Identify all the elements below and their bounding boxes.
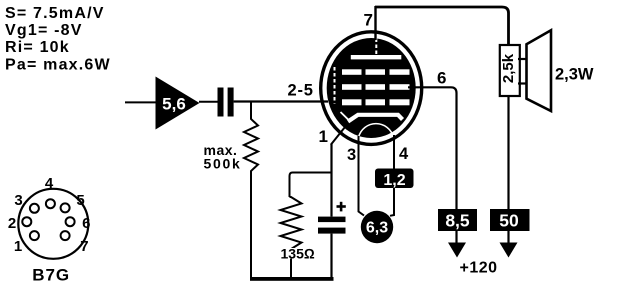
svg-text:2,3W: 2,3W xyxy=(555,66,594,84)
wire pin1 lead (cathode) xyxy=(331,127,345,145)
grid row 3 xyxy=(342,99,410,105)
grid rod internal dashed xyxy=(334,67,336,104)
svg-text:S= 7.5mA/V: S= 7.5mA/V xyxy=(5,5,105,22)
svg-text:6: 6 xyxy=(437,69,446,88)
tube V1 envelope xyxy=(321,32,422,145)
svg-text:4: 4 xyxy=(45,175,54,192)
svg-text:+120: +120 xyxy=(460,260,498,277)
speaker LS1 xyxy=(518,30,551,111)
screen voltage box 8,5 xyxy=(438,209,477,231)
B7G socket outline xyxy=(18,189,88,259)
grid row 1 xyxy=(342,69,410,75)
svg-text:4: 4 xyxy=(399,145,409,163)
svg-text:2-5: 2-5 xyxy=(288,82,314,100)
socket pin 3 xyxy=(30,204,39,213)
socket pin 6 xyxy=(66,217,75,226)
svg-text:50: 50 xyxy=(499,211,519,231)
wire pin6 (screen) xyxy=(408,87,457,209)
socket pin 2 xyxy=(22,217,31,226)
svg-text:B7G: B7G xyxy=(32,266,70,285)
wire C1 to tube grid xyxy=(234,100,328,102)
svg-text:1: 1 xyxy=(14,238,22,255)
heater dome arc xyxy=(359,124,394,137)
svg-text:6: 6 xyxy=(82,215,90,232)
wire pin4 heater xyxy=(390,135,394,216)
wire pin7 vertical xyxy=(374,6,376,40)
capacitor C2 electrolytic (cathode bypass) xyxy=(318,144,346,278)
anode top bar xyxy=(351,55,402,59)
svg-text:7: 7 xyxy=(364,11,373,30)
arrow screen supply xyxy=(448,231,466,258)
cathode plate white xyxy=(348,115,403,122)
parameter text block xyxy=(5,5,111,73)
wire anode supply xyxy=(507,96,509,209)
wire cathode branch junction xyxy=(290,173,332,198)
socket pin 7 xyxy=(61,231,70,240)
top rail wire (anode to transformer) xyxy=(375,7,509,45)
arrow anode supply xyxy=(500,231,518,258)
wire pin3 heater xyxy=(359,136,365,216)
svg-text:8,5: 8,5 xyxy=(445,211,470,231)
svg-text:1,2: 1,2 xyxy=(383,172,405,189)
ground rail (bottom return) xyxy=(250,277,334,281)
label max. 500k xyxy=(204,142,242,172)
tube anode blob xyxy=(327,38,416,138)
socket labels xyxy=(8,175,91,255)
svg-text:Ri= 10k: Ri= 10k xyxy=(5,39,70,56)
heater voltage circle 6,3 xyxy=(361,211,393,243)
input level triangle 5,6 xyxy=(156,77,200,130)
plus polarity mark xyxy=(337,202,346,212)
svg-text:5,6: 5,6 xyxy=(162,95,186,114)
socket pin 4 xyxy=(46,199,55,208)
heater current box 1,2 xyxy=(375,169,414,190)
svg-text:500k: 500k xyxy=(204,156,242,172)
label 135ohm xyxy=(281,246,315,262)
svg-text:3: 3 xyxy=(14,192,22,209)
svg-text:Pa= max.6W: Pa= max.6W xyxy=(5,56,111,73)
anode current box 50 xyxy=(490,209,530,231)
resistor R2 135ohm (cathode bias) xyxy=(281,197,302,278)
svg-text:Vg1= -8V: Vg1= -8V xyxy=(5,22,83,39)
svg-text:6,3: 6,3 xyxy=(366,220,388,237)
svg-text:2,5k: 2,5k xyxy=(500,53,517,83)
wire triangle to C1 xyxy=(199,101,218,103)
wire input xyxy=(125,101,156,103)
svg-text:7: 7 xyxy=(80,238,88,255)
resistor R1 max.500k (grid leak) xyxy=(244,103,258,279)
svg-text:135Ω: 135Ω xyxy=(281,246,315,262)
socket pin 5 xyxy=(61,203,70,212)
svg-text:5: 5 xyxy=(76,192,84,209)
svg-text:1: 1 xyxy=(319,127,328,146)
transformer T1 2,5k xyxy=(500,45,520,96)
svg-text:3: 3 xyxy=(347,146,356,164)
grid row 2 xyxy=(342,84,410,90)
pin7 internal dashed lead xyxy=(375,39,377,56)
svg-text:2: 2 xyxy=(8,215,16,232)
capacitor C1 (coupling) xyxy=(218,88,234,117)
socket pin 1 xyxy=(30,231,39,240)
cathode lead white part xyxy=(341,112,351,122)
